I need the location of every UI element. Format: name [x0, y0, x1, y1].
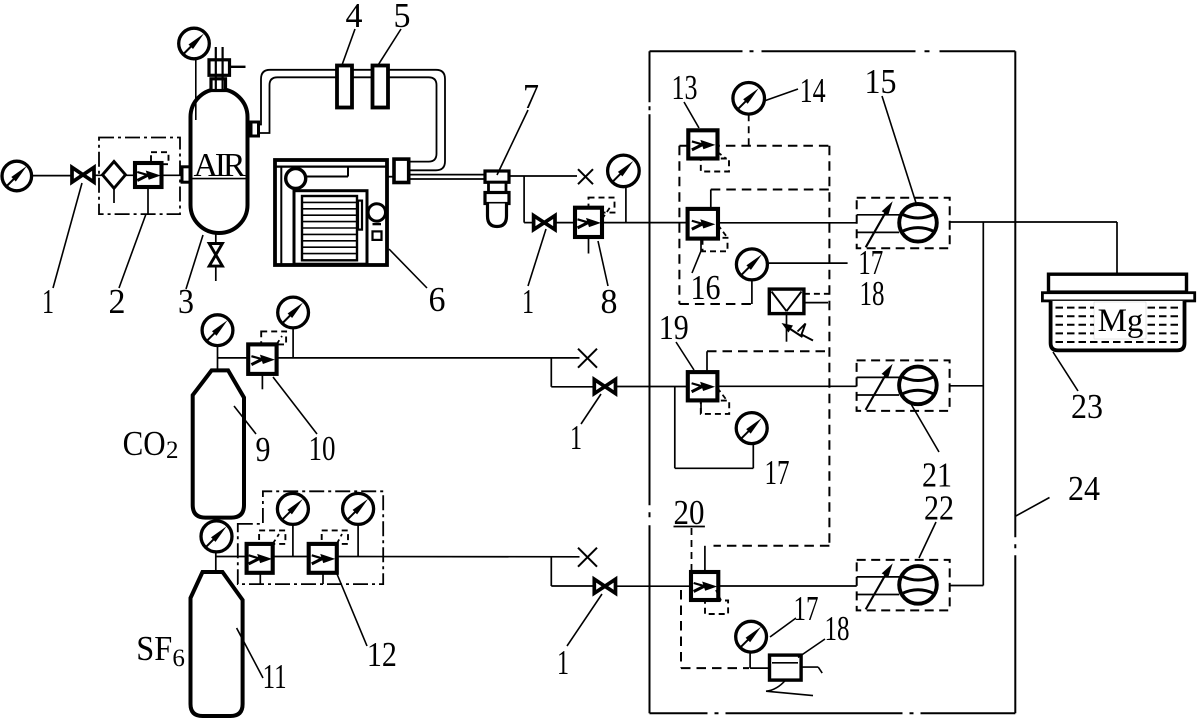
compressor outlet stub — [387, 176, 394, 178]
label 18 section 3 — [825, 609, 850, 648]
label 21 — [922, 456, 952, 495]
svg-text:6: 6 — [429, 280, 446, 319]
mixed gas feed down to crucible — [1116, 222, 1118, 274]
svg-text:7: 7 — [523, 77, 539, 116]
leader label 6 — [389, 249, 427, 288]
gauge on CO2 cylinder — [202, 315, 233, 346]
wire CO2 valve to panel — [616, 386, 688, 388]
label 13 — [672, 68, 698, 107]
gauge 17 stem (section 1) — [751, 280, 753, 304]
regulator 16 pilot box — [701, 225, 728, 251]
label 3 air tank — [178, 282, 194, 321]
flow meter 21 (CO2) — [857, 360, 950, 411]
flow meter 15 (air) — [857, 198, 950, 249]
air tank drain valve — [209, 244, 222, 267]
dashed pilot line (19 to bus) — [707, 350, 829, 352]
label 6 compressor — [429, 280, 446, 319]
gauge on air tank — [179, 28, 210, 59]
crucible flange — [1042, 293, 1194, 301]
air line from filter 7 — [509, 175, 577, 177]
label 11 — [263, 657, 287, 696]
regulator 13 pilot box — [701, 152, 729, 172]
gauge after regulator 10 — [278, 297, 309, 328]
CO2 branch wire — [218, 357, 249, 359]
air tank drain stub — [215, 233, 217, 244]
leader label 1 (inlet valve) — [53, 183, 82, 288]
leader label 11 — [237, 628, 263, 678]
solenoid 18 electric arrow — [782, 323, 814, 341]
wire fitting side port — [230, 66, 246, 68]
SF6 branch down to panel — [551, 557, 594, 586]
leader label 18 (section 3) — [798, 639, 825, 658]
regulator 8 pilot box — [589, 198, 615, 219]
leader label 22 — [919, 522, 936, 558]
leader label 24 — [1016, 498, 1050, 517]
svg-text:2: 2 — [166, 437, 179, 464]
label 19 — [659, 308, 689, 347]
solenoid 18 stem down — [786, 314, 788, 342]
label 17 section 3 — [794, 589, 819, 628]
shutoff valve 1 (air inlet) — [72, 167, 94, 182]
svg-text:1: 1 — [570, 418, 582, 457]
regulator 19 — [688, 372, 718, 400]
compressor grille — [302, 196, 357, 260]
air tank top fitting (outer square) — [209, 60, 230, 76]
label 10 — [309, 429, 336, 468]
regulator in unit 2 — [135, 163, 162, 214]
svg-text:4: 4 — [346, 0, 363, 35]
gauge 17 (section 2) — [736, 413, 767, 444]
label 23 — [1071, 387, 1103, 426]
pilot bus vertical (dashed) — [828, 146, 830, 546]
leader label 17 (section 3) — [770, 618, 796, 637]
capped test point X (CO2 line) — [578, 349, 597, 368]
filter (diamond) in unit 2 — [103, 162, 126, 204]
CO2 gauge stem — [217, 346, 219, 371]
SF6 line to test point — [274, 556, 579, 558]
regulator 10 — [248, 344, 276, 389]
gauge on SF6 cylinder — [201, 521, 232, 552]
compressor inner frame line — [280, 167, 282, 265]
svg-text:SF: SF — [136, 629, 172, 668]
wire gauge stem into tank — [195, 59, 197, 120]
dashed group bottom edge (section 1) — [679, 303, 752, 305]
svg-text:5: 5 — [394, 0, 411, 35]
svg-text:1: 1 — [522, 282, 534, 321]
air hose to filter 7 (double line) — [409, 175, 485, 179]
CO2 branch down to panel — [551, 358, 594, 387]
gauge 12b stem — [357, 524, 359, 556]
gauge 10 stem — [292, 328, 294, 358]
air tank fitting rod — [216, 47, 223, 91]
leader line label 17 (section 1) — [767, 262, 847, 264]
pressure gauge (inlet, item 1 group) — [2, 161, 32, 191]
regulator 12b — [309, 544, 337, 584]
label 2 filter-regulator — [109, 282, 126, 321]
wire inlet gauge to shutoff valve — [32, 175, 72, 177]
gauge 8 stem — [625, 187, 627, 223]
air tank right port — [251, 122, 259, 136]
gauge 14 dashed stem — [748, 114, 750, 146]
label 18 section 1 — [860, 274, 885, 313]
mixed gas bus (vertical) — [982, 222, 984, 586]
gauge 17 stem (section 3) — [749, 652, 751, 668]
svg-text:23: 23 — [1071, 387, 1103, 426]
leader label 4 — [342, 29, 355, 65]
shutoff valve 1 (air to panel) — [534, 216, 555, 230]
regulator 12a pilot box — [259, 530, 285, 544]
label 4 — [346, 0, 363, 35]
svg-text:3: 3 — [178, 282, 194, 321]
gauge 12a stem — [292, 524, 294, 556]
dual regulator unit 12 enclosure (dash-dot) — [238, 491, 383, 584]
wire valve to regulator 8 — [555, 222, 575, 224]
wire valve to filter-regulator unit 2 — [94, 174, 136, 176]
svg-text:19: 19 — [659, 308, 689, 347]
leader label 8 — [598, 241, 608, 286]
label 5 — [394, 0, 411, 35]
compressor duct — [306, 167, 349, 177]
compressor 6 body — [275, 160, 387, 265]
air line flow meter 15 output — [950, 221, 1117, 223]
svg-text:16: 16 — [691, 268, 721, 307]
dashed group left edge (section 3) — [680, 590, 682, 668]
solenoid valve 18 (section 1) — [769, 289, 804, 314]
compressor motor circle — [286, 169, 306, 189]
label 22 — [924, 489, 954, 528]
leader label 16 — [692, 251, 701, 273]
gauge 14 — [733, 83, 765, 115]
label 12 — [367, 635, 397, 674]
compressor knob — [368, 204, 385, 221]
pilot regulator 13 — [688, 130, 717, 158]
compressor top band — [275, 166, 387, 168]
label 1 air panel valve — [522, 282, 534, 321]
svg-text:15: 15 — [865, 62, 897, 101]
air tank neck fitting — [211, 79, 226, 91]
pipe loop inner wall — [259, 77, 437, 161]
compressor switch dash — [373, 223, 382, 225]
leader label 21 — [911, 404, 939, 452]
filter-separator 7 bowl — [488, 204, 507, 227]
compressor outlet port — [394, 159, 409, 182]
svg-text:1: 1 — [557, 643, 569, 682]
svg-text:9: 9 — [256, 430, 271, 469]
crucible lid — [1049, 274, 1187, 292]
wire unit 2 to air tank port — [162, 174, 183, 176]
label Mg (molten magnesium) — [1098, 303, 1144, 339]
dashed leader label 20 — [691, 528, 693, 571]
solenoid 18b vent curve — [766, 680, 813, 696]
label 20 with underline — [674, 493, 705, 532]
svg-text:Mg: Mg — [1098, 303, 1144, 339]
gauge 17 (section 1) — [736, 249, 767, 280]
regulator 20 riser — [704, 546, 706, 572]
pipe loop outer wall (tank to dryers to compressor) — [259, 70, 446, 171]
filter-separator 7 top — [485, 171, 509, 182]
label SF6 — [136, 629, 185, 672]
capped test point X (air line) — [578, 169, 593, 184]
svg-text:6: 6 — [172, 645, 185, 672]
solenoid valve 18 (section 3) — [770, 655, 802, 680]
solenoid 18 solid link — [804, 302, 828, 304]
dashed pilot line (16 to bus) — [711, 189, 830, 191]
label 17 section 2 — [765, 453, 790, 492]
svg-text:AIR: AIR — [194, 147, 246, 184]
leader label 10 — [273, 377, 317, 434]
regulator 16 riser — [710, 190, 712, 209]
svg-text:18: 18 — [860, 274, 885, 313]
regulator 19 pilot box — [701, 388, 729, 414]
label 15 — [865, 62, 897, 101]
svg-text:14: 14 — [800, 71, 826, 110]
label 1 inlet valve — [42, 282, 54, 321]
leader label 23 — [1053, 352, 1078, 391]
label CO2 — [123, 424, 179, 464]
leader label 7 — [497, 110, 528, 175]
compressor switch square — [373, 231, 382, 240]
SF6 flow meter output — [950, 585, 983, 587]
svg-text:18: 18 — [825, 609, 850, 648]
CO2 cylinder 9 — [193, 370, 244, 517]
SF6 gauge stem — [215, 552, 217, 573]
solenoid 18 dashed link to bus — [804, 293, 830, 295]
leader label 15 — [882, 96, 917, 206]
svg-text:10: 10 — [309, 429, 336, 468]
gauge 17 (section 3) — [736, 621, 767, 652]
compressor grille housing — [294, 191, 367, 265]
air line regulator 16 to flow meter 15 — [718, 222, 857, 224]
CO2 flow meter output — [950, 385, 984, 387]
label 1 SF6 valve — [557, 643, 569, 682]
svg-text:8: 8 — [601, 282, 618, 321]
label 16 — [691, 268, 721, 307]
label 17 section 1 — [858, 243, 883, 282]
label 24 — [1068, 469, 1100, 508]
leader label 19 — [676, 342, 694, 370]
label AIR on tank — [194, 147, 246, 184]
svg-text:1: 1 — [42, 282, 54, 321]
shutoff valve 1 (CO2) — [594, 380, 615, 394]
regulator 12b pilot box — [322, 530, 348, 544]
wire gauge to solenoid 18 (section 3) — [750, 667, 769, 669]
regulator 8 — [575, 208, 602, 254]
SF6 line regulator 20 to flow meter 22 — [718, 585, 856, 587]
svg-text:13: 13 — [672, 68, 698, 107]
svg-text:11: 11 — [263, 657, 287, 696]
regulator 12a — [247, 544, 273, 584]
svg-text:2: 2 — [109, 282, 126, 321]
molten metal level dashes — [1056, 302, 1181, 342]
flow meter 22 (SF6) — [857, 560, 950, 611]
leader label 5 — [378, 29, 402, 66]
svg-text:17: 17 — [765, 453, 790, 492]
filter-separator 7 band — [485, 193, 509, 204]
gauge 17 section 2 sensing wire — [675, 387, 754, 469]
leader label 1 (CO2 valve) — [581, 394, 601, 424]
wire SF6 valve to panel — [616, 585, 692, 587]
leader label 9 — [234, 406, 256, 434]
crucible body 23 — [1051, 301, 1185, 351]
dashed group left edge (section 1) — [678, 146, 680, 304]
air line into mixing panel — [602, 222, 688, 224]
mixing panel enclosure 24 (chain-line box) — [650, 51, 1016, 713]
filter-separator 7 neck — [489, 182, 507, 192]
regulator 20 — [691, 572, 718, 600]
gauge after regulator 12b — [343, 493, 374, 524]
inline dryer 4 — [337, 66, 352, 108]
dashed group bottom edge (section 3) — [681, 667, 749, 669]
svg-text:17: 17 — [794, 589, 819, 628]
filter-regulator unit 2 enclosure (dash-dot box) — [99, 138, 180, 215]
compressor grille handle — [358, 201, 362, 230]
leader label 1 (air panel valve) — [528, 229, 546, 286]
label 9 — [256, 430, 271, 469]
SF6 branch wire — [216, 556, 247, 558]
leader label 14 — [766, 89, 799, 101]
air branch down to regulator 8 — [524, 176, 533, 223]
label 7 — [523, 77, 539, 116]
air tank left port — [182, 167, 191, 182]
leader label 3 — [186, 235, 203, 289]
solenoid 18b right hook — [801, 667, 822, 673]
label 8 — [601, 282, 618, 321]
inline dryer 5 — [373, 66, 389, 108]
air tank level line — [191, 178, 248, 180]
pilot box of regulator in unit 2 — [151, 152, 169, 164]
SF6 cylinder 11 — [191, 572, 243, 716]
leader label 2 — [119, 214, 146, 288]
dashed pilot header line (section 1 top) — [679, 145, 829, 147]
shutoff valve 1 (SF6) — [594, 579, 615, 593]
regulator 10 pilot box — [261, 331, 286, 344]
regulator 20 pilot box — [705, 590, 728, 614]
svg-text:22: 22 — [924, 489, 954, 528]
regulator 19 riser — [706, 351, 708, 372]
air tank 3 (vessel) — [191, 89, 248, 233]
CO2 line to test point — [277, 357, 580, 359]
svg-text:12: 12 — [367, 635, 397, 674]
capped test point X (SF6 line) — [578, 548, 597, 567]
label 1 CO2 valve — [570, 418, 582, 457]
label 14 — [800, 71, 826, 110]
leader label 12 — [337, 574, 367, 646]
gauge after regulator 12a — [277, 493, 308, 524]
CO2 line regulator 19 to flow meter 21 — [717, 385, 856, 387]
dashed pilot return line (bus to regulator 20) — [714, 545, 830, 547]
svg-text:CO: CO — [123, 424, 166, 463]
leader label 1 (SF6 valve) — [567, 594, 602, 646]
leader label 13 — [684, 102, 699, 128]
air tank drain outlet wire — [215, 266, 217, 281]
svg-text:24: 24 — [1068, 469, 1100, 508]
gauge after regulator 8 — [608, 155, 640, 187]
regulator 16 — [688, 209, 718, 239]
